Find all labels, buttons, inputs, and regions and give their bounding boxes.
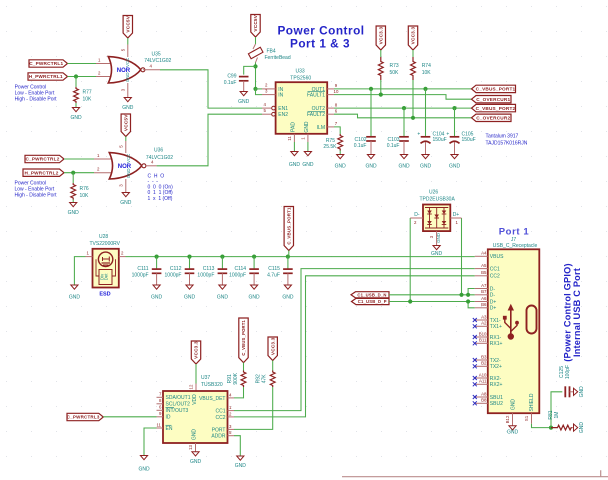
- wire C105 top: [454, 108, 456, 137]
- pin name ADDR: [211, 434, 226, 440]
- svg-text:U36: U36: [154, 147, 163, 153]
- svg-text:900K: 900K: [233, 372, 239, 384]
- svg-text:4: 4: [264, 102, 267, 107]
- svg-text:3: 3: [120, 88, 125, 91]
- svg-text:3: 3: [118, 184, 123, 187]
- label R92: [256, 374, 262, 383]
- pin name EN2: [278, 112, 288, 118]
- svg-text:ESD: ESD: [99, 292, 110, 298]
- svg-text:TX1+: TX1+: [490, 324, 502, 330]
- label U36: [154, 147, 163, 153]
- pin J7 B6 D+: [475, 302, 497, 312]
- svg-text:B7: B7: [481, 289, 487, 294]
- pin name EN: [166, 425, 173, 432]
- svg-text:74LVC1G02: 74LVC1G02: [146, 155, 173, 161]
- wire U35 output to EN1: [160, 70, 262, 108]
- wire C114 bottom: [253, 273, 255, 285]
- label U33: [296, 68, 305, 74]
- label FerriteBead: [265, 55, 291, 61]
- wire VCC5V to U36: [125, 137, 127, 142]
- wire D_P to U26: [409, 218, 411, 302]
- wire H_PWRCTRL1 to U35 input 2: [68, 76, 97, 78]
- resistor R81 1M: [551, 425, 572, 430]
- pin name SCL/OUT2: [166, 402, 191, 408]
- svg-text:EN2: EN2: [278, 112, 288, 118]
- svg-text:8: 8: [335, 102, 338, 107]
- svg-text:TAJD157K016RJN: TAJD157K016RJN: [486, 141, 528, 147]
- svg-text:VCC5V: VCC5V: [123, 114, 128, 131]
- pin U37 left 6: [157, 405, 164, 411]
- wire flag to R91: [243, 363, 245, 371]
- svg-text:C113: C113: [203, 266, 215, 272]
- wire to IN pin 2: [256, 88, 263, 90]
- label TPS2560: [290, 75, 311, 81]
- svg-text:2: 2: [98, 70, 101, 75]
- svg-text:A2: A2: [481, 321, 487, 326]
- capacitor C125 100pF: [565, 386, 569, 397]
- svg-text:3: 3: [429, 235, 434, 238]
- svg-text:RX2-: RX2-: [490, 376, 502, 382]
- ground right of C125: [574, 386, 586, 398]
- wire C115 bottom: [287, 273, 289, 285]
- pin name GND (U37): [192, 429, 198, 441]
- wire D_P net: [389, 301, 475, 303]
- svg-text:H_PWRCTRL2: H_PWRCTRL2: [24, 170, 58, 175]
- svg-text:4: 4: [150, 63, 153, 68]
- ground C102: [365, 155, 377, 170]
- svg-text:S1: S1: [524, 415, 529, 421]
- svg-text:VCC3.3: VCC3.3: [270, 337, 275, 355]
- title line 2: [290, 37, 350, 51]
- pin U33 IN 2: [262, 83, 276, 89]
- USB logo: [503, 304, 519, 340]
- pin U37 left 8: [157, 398, 164, 404]
- net label C_OVERCUR2: [472, 114, 512, 121]
- svg-text:GND: GND: [304, 121, 310, 133]
- svg-text:10K: 10K: [422, 70, 432, 76]
- pin J7 A10 RX2-: [473, 372, 502, 382]
- label R91: [227, 374, 233, 383]
- svg-text:1: 1: [97, 153, 100, 158]
- pin name GND (U33): [304, 121, 310, 133]
- svg-text:5: 5: [118, 145, 123, 148]
- wire C112 bottom: [189, 273, 191, 285]
- svg-text:GND: GND: [190, 459, 202, 465]
- ground J7 GND: [507, 426, 519, 436]
- op-amp gate U35 74LVC1G02 NOR: [108, 57, 145, 83]
- svg-text:50K: 50K: [390, 70, 400, 76]
- pin name IN (3): [278, 93, 283, 99]
- ground C113: [217, 285, 229, 301]
- pin U26 GND 3: [429, 231, 441, 245]
- power flag VCC5V (U36): [121, 114, 130, 137]
- junction R73 / FAULT1: [379, 93, 383, 97]
- svg-text:TVS22000RV: TVS22000RV: [90, 241, 121, 247]
- wire VCC3.3 to R74: [412, 50, 414, 57]
- svg-text:+: +: [446, 131, 449, 137]
- pin J7 B2 TX2+: [473, 361, 502, 371]
- capacitor C102 0.1uF: [354, 137, 376, 149]
- junction FB4 / C99: [253, 64, 257, 68]
- svg-text:A5: A5: [481, 263, 487, 268]
- label TUSB320: [201, 382, 223, 388]
- wire VCC5V to FB4: [255, 37, 257, 44]
- svg-text:VCC3.3: VCC3.3: [411, 27, 416, 45]
- wire C102 bottom: [370, 141, 372, 155]
- svg-text:GND: GND: [68, 210, 80, 216]
- wire C113 bottom: [221, 273, 223, 285]
- wire C111 bottom: [156, 273, 158, 285]
- pin U33 IN 3: [262, 88, 276, 94]
- wire C104 top: [425, 89, 427, 137]
- svg-text:VCC5V: VCC5V: [125, 15, 130, 32]
- note power control 1 line 3: [15, 97, 58, 103]
- pin name ILM: [317, 125, 325, 131]
- pin name OUT2: [312, 106, 326, 112]
- svg-text:R76: R76: [80, 186, 89, 192]
- svg-text:A10: A10: [479, 372, 487, 377]
- wire OUT1 net: [334, 88, 472, 90]
- svg-text:1000pF: 1000pF: [132, 273, 149, 279]
- svg-text:100pF: 100pF: [565, 365, 571, 379]
- svg-text:U28: U28: [99, 234, 108, 240]
- svg-text:1M: 1M: [554, 412, 560, 419]
- junction SHIELD / C125 / R81: [549, 426, 553, 430]
- wire C103 top: [403, 108, 405, 137]
- pin U33 FAULT2 6: [327, 108, 338, 114]
- svg-text:RX2+: RX2+: [490, 382, 503, 388]
- pin U26 D- 2: [410, 212, 423, 225]
- pin J7 A4 VBUS: [475, 251, 504, 261]
- svg-text:VCC3.3: VCC3.3: [378, 27, 383, 45]
- svg-text:74LVC1G02: 74LVC1G02: [144, 58, 171, 64]
- note Power Control GPIO: [563, 263, 573, 361]
- label ESD: [99, 292, 110, 298]
- wire CC2 net: [234, 276, 475, 417]
- svg-text:13: 13: [188, 445, 193, 450]
- svg-text:B10: B10: [479, 331, 487, 336]
- svg-text:25.5K: 25.5K: [323, 144, 337, 150]
- pin J7 GND B12: [505, 413, 513, 425]
- svg-text:GND: GND: [184, 295, 196, 301]
- wire R76 bottom: [72, 200, 74, 203]
- wire FAULT2 net: [334, 114, 472, 118]
- ground U35: [122, 98, 134, 111]
- label U28: [99, 234, 108, 240]
- note power control 1 line 1: [15, 85, 47, 91]
- junction OUT2 / C103: [402, 106, 406, 110]
- svg-text:GND: GND: [398, 164, 410, 170]
- pin name FAULT1: [307, 92, 325, 99]
- pin J7 A11 RX2+: [473, 379, 503, 389]
- svg-text:R77: R77: [83, 90, 92, 96]
- svg-text:USB_C_Receptacle: USB_C_Receptacle: [493, 243, 538, 249]
- pin U33 OUT2 8: [327, 102, 338, 108]
- svg-text:(Power Control GPIO): (Power Control GPIO): [563, 263, 573, 361]
- wire C111 top: [156, 257, 158, 269]
- resistor R91 900K: [241, 371, 246, 388]
- junction H_PWRCTRL2 / R76: [71, 171, 75, 175]
- ground R77: [70, 108, 82, 121]
- label 74LVC1G02 (U36): [146, 155, 173, 161]
- svg-text:EN: EN: [166, 426, 173, 432]
- svg-text:11: 11: [287, 136, 292, 141]
- svg-text:9: 9: [159, 411, 162, 416]
- svg-text:6: 6: [335, 108, 338, 113]
- wire C115 top: [287, 257, 289, 269]
- junction D_N jog: [466, 293, 470, 297]
- pin U26 D+ 1: [450, 212, 461, 225]
- svg-text:GND: GND: [282, 295, 294, 301]
- wire R77 bottom: [75, 103, 77, 108]
- pin U35 input 2: [96, 70, 112, 76]
- svg-text:TPD2EUSB30A: TPD2EUSB30A: [420, 196, 456, 202]
- pin U36 input 2: [94, 167, 114, 173]
- wire C104 bottom: [425, 142, 427, 155]
- ground C103: [398, 155, 410, 170]
- svg-text:2: 2: [229, 411, 232, 416]
- wire VCC3.3 to R92: [272, 361, 274, 371]
- svg-text:150uF: 150uF: [433, 137, 447, 143]
- pin U37 right 2: [228, 411, 235, 417]
- svg-text:SDA/OUT1: SDA/OUT1: [166, 395, 191, 401]
- svg-text:2: 2: [265, 83, 268, 88]
- svg-text:1: 1: [98, 57, 101, 62]
- wire C_PWRCTRL1 to U35 input 1: [68, 63, 97, 65]
- ground U36: [120, 193, 132, 206]
- svg-text:A3: A3: [481, 314, 487, 319]
- label C125: [559, 366, 565, 378]
- svg-text:C102: C102: [355, 137, 367, 143]
- svg-text:U35: U35: [152, 52, 161, 58]
- svg-text:B5: B5: [481, 270, 487, 275]
- wire EN to ground: [144, 428, 157, 456]
- svg-text:B2: B2: [481, 361, 487, 366]
- pin U37 EN 11: [156, 422, 163, 428]
- resistor R75 25.5K: [338, 134, 343, 151]
- svg-text:C115: C115: [268, 266, 280, 272]
- net label C1_USB_D_P: [352, 298, 390, 304]
- wire VCC3.3 to R73: [380, 50, 382, 57]
- svg-text:H_PWRCTRL1: H_PWRCTRL1: [29, 74, 63, 79]
- resistor R76 10K: [71, 183, 89, 200]
- pin U37 VDD 12: [189, 384, 197, 392]
- wire R76 top: [72, 173, 74, 183]
- svg-text:47K: 47K: [262, 374, 268, 384]
- svg-text:2: 2: [97, 167, 100, 172]
- svg-text:B3: B3: [481, 354, 487, 359]
- svg-text:0.1uF: 0.1uF: [387, 143, 400, 149]
- svg-text:10: 10: [334, 89, 339, 94]
- pin U37 right 3: [228, 424, 235, 430]
- svg-text:GND: GND: [235, 463, 247, 469]
- pin U28 2: [119, 250, 126, 256]
- svg-text:GND: GND: [431, 251, 443, 257]
- power flag VCC3.3 (R74): [408, 26, 417, 50]
- svg-text:2: 2: [121, 250, 124, 255]
- svg-text:C1_USB_D_P: C1_USB_D_P: [358, 299, 387, 304]
- net label C_OVERCUR1: [472, 96, 512, 103]
- wire to C99: [244, 66, 256, 74]
- svg-text:C1_USB_D_N: C1_USB_D_N: [357, 293, 386, 298]
- power flag VCC5V (FB4): [251, 14, 260, 37]
- IC U33 TPS2560 body: [276, 82, 328, 134]
- svg-text:C114: C114: [235, 266, 247, 272]
- svg-text:VDD: VDD: [192, 394, 198, 405]
- ground R76: [68, 203, 80, 216]
- wire FB4 to IN pins: [255, 63, 257, 89]
- ESD diode U26 body: [423, 205, 450, 232]
- junction R74 / FAULT2: [411, 116, 415, 120]
- wire C112 top: [189, 257, 191, 269]
- svg-text:SBU1: SBU1: [490, 395, 503, 401]
- pin U35 input 1: [96, 57, 112, 63]
- svg-text:B6: B6: [481, 302, 487, 307]
- wire R75 to ground: [339, 151, 341, 155]
- wire C113 top: [221, 257, 223, 269]
- svg-text:SHIELD: SHIELD: [529, 393, 535, 411]
- svg-text:C112: C112: [170, 266, 182, 272]
- resistor R77 10K: [74, 87, 92, 103]
- wire CC1 net: [234, 269, 475, 411]
- pin U36 output pin 4: [146, 159, 157, 166]
- op-amp gate U36 74LVC1G02 NOR: [109, 153, 146, 179]
- pin U36 GND pin 3: [118, 179, 126, 192]
- wire C125 to ground flag: [570, 391, 574, 393]
- svg-text:D+: D+: [490, 299, 497, 305]
- svg-text:GND: GND: [192, 429, 198, 441]
- pin U35 GND pin 3: [120, 83, 128, 97]
- wire U28 to ground: [74, 257, 85, 285]
- wire to IN pin 3: [256, 89, 263, 95]
- svg-text:C_PWRCTRL2: C_PWRCTRL2: [25, 157, 59, 162]
- note tantalum line 2: [486, 141, 528, 147]
- svg-text:C_VBUS_PORT2: C_VBUS_PORT2: [476, 106, 516, 111]
- label U37: [201, 375, 210, 381]
- ground U37 ADDR: [235, 456, 247, 469]
- note power control 2 line 3: [15, 193, 58, 199]
- svg-text:Tantalum 3917: Tantalum 3917: [486, 134, 519, 140]
- ground C99: [238, 92, 250, 105]
- svg-text:VBUS: VBUS: [490, 254, 504, 260]
- svg-text:CC2: CC2: [215, 415, 225, 421]
- pin name OUT1: [312, 87, 326, 93]
- label TPD2EUSB30A: [420, 196, 456, 202]
- svg-text:8: 8: [159, 398, 162, 403]
- svg-text:D+: D+: [453, 212, 460, 218]
- wire R73 to FAULT1: [380, 80, 382, 95]
- svg-text:1: 1: [229, 405, 232, 410]
- svg-text:A11: A11: [479, 379, 487, 384]
- svg-text:C_OVERCUR2: C_OVERCUR2: [476, 116, 510, 121]
- svg-text:A4: A4: [481, 251, 487, 256]
- svg-text:INT/OUT3: INT/OUT3: [166, 408, 189, 414]
- svg-text:12: 12: [189, 384, 194, 389]
- wire C99 to ground: [243, 81, 245, 92]
- svg-text:5: 5: [229, 430, 232, 435]
- svg-text:D+: D+: [490, 306, 497, 312]
- capacitor C103 0.1uF: [387, 137, 409, 149]
- ground U37 GND pin: [190, 452, 202, 465]
- power flag VCC3.3 (U37 VDD): [191, 341, 200, 364]
- svg-text:4.7uF: 4.7uF: [267, 273, 280, 279]
- wire VBUS row: [126, 256, 475, 258]
- svg-text:1: 1: [301, 137, 306, 140]
- svg-text:Internal USB C Port: Internal USB C Port: [572, 268, 582, 357]
- svg-text:0.1uF: 0.1uF: [224, 80, 237, 86]
- svg-text:+: +: [417, 131, 420, 137]
- ground U26: [431, 246, 443, 258]
- svg-text:U37: U37: [201, 375, 210, 381]
- svg-text:High - Disable Port: High - Disable Port: [15, 97, 58, 103]
- svg-text:C99: C99: [227, 73, 236, 79]
- wire ADDR to ground: [234, 436, 240, 456]
- pin J7 B8 SBU2: [473, 398, 503, 408]
- svg-text:VCC: VCC: [126, 154, 131, 163]
- svg-text:A8: A8: [481, 391, 487, 396]
- svg-text:B12: B12: [505, 415, 510, 423]
- svg-text:GND: GND: [217, 295, 229, 301]
- pin name CC2: [215, 415, 225, 421]
- svg-text:FerriteBead: FerriteBead: [265, 55, 291, 61]
- ferrite bead FB4: [248, 44, 263, 63]
- wire D_N to A7: [461, 218, 463, 295]
- note Internal USB C Port: [572, 268, 582, 357]
- svg-text:VCC3.3: VCC3.3: [194, 341, 199, 359]
- svg-text:GND: GND: [138, 467, 150, 473]
- svg-text:1 x 1 (Off): 1 x 1 (Off): [148, 196, 173, 202]
- capacitor C114 1000pF: [229, 266, 259, 279]
- svg-text:GND: GND: [449, 164, 461, 170]
- pin name GND (J7): [511, 399, 517, 411]
- pin name INT/OUT3: [166, 408, 189, 415]
- svg-text:1: 1: [87, 250, 90, 255]
- label 100pF: [565, 365, 571, 379]
- svg-text:10K: 10K: [83, 97, 93, 103]
- junction IN pins: [253, 87, 257, 91]
- svg-text:C103: C103: [388, 137, 400, 143]
- pin name IN (2): [278, 87, 283, 93]
- pin U33 FAULT1 10: [327, 89, 339, 95]
- pin J7 B11 RX1+: [473, 338, 503, 348]
- svg-text:C_PWRCTRL3: C_PWRCTRL3: [67, 415, 100, 420]
- wire ILM to R75: [334, 127, 340, 134]
- power flag VCC5V (U35): [123, 15, 132, 38]
- svg-text:GND: GND: [365, 164, 377, 170]
- svg-text:CC2: CC2: [490, 274, 500, 280]
- svg-text:3: 3: [229, 424, 232, 429]
- svg-text:GND: GND: [125, 72, 130, 82]
- net label C_PWRCTRL1: [29, 60, 68, 67]
- capacitor C99 0.1uF: [224, 73, 249, 86]
- USB receptacle icon: [527, 306, 537, 334]
- net label C_VBUS_PORT1 (VBUS net): [284, 207, 293, 251]
- junction VBUS / C115: [286, 255, 290, 259]
- wire U33 GND to ground: [307, 142, 309, 152]
- connector J7 body: [488, 249, 540, 413]
- svg-text:U26: U26: [429, 190, 438, 196]
- capacitor C105 150uF: [446, 131, 475, 143]
- resistor R74 10K: [411, 57, 432, 80]
- svg-text:VBUS_DET: VBUS_DET: [199, 396, 225, 402]
- ground U28: [69, 285, 81, 301]
- svg-text:GND: GND: [122, 105, 134, 111]
- svg-text:0.1uF: 0.1uF: [354, 143, 367, 149]
- junction H_PWRCTRL1 / R77: [74, 74, 78, 78]
- net label C_VBUS_PORT1 (R91): [239, 318, 248, 363]
- pin name CC1: [215, 409, 225, 415]
- svg-text:GND: GND: [420, 164, 432, 170]
